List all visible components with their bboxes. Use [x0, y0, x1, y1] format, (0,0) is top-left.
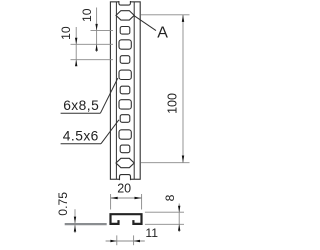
extension line 100 bottom — [141, 162, 190, 164]
svg-text:10: 10 — [59, 26, 73, 40]
extension line hole5 center — [71, 59, 114, 61]
top edge notch (cut hole) — [119, 1, 130, 5]
svg-text:8: 8 — [163, 194, 177, 201]
dimension line 11 — [106, 240, 145, 242]
extension line hole4 center — [71, 43, 114, 45]
rail inner bend line left — [115, 2, 117, 179]
svg-text:11: 11 — [145, 226, 158, 240]
small hole 4.5x6 — [120, 27, 130, 35]
rail front view outer outline — [110, 2, 140, 179]
sheet thickness band 0.75 — [65, 223, 107, 225]
svg-text:6x8,5: 6x8,5 — [63, 98, 99, 113]
svg-text:20: 20 — [117, 182, 131, 196]
dimension line 0.75 — [74, 209, 76, 233]
dimension 20 extension lines — [110, 194, 112, 210]
large hole — [119, 70, 131, 79]
dimension line 8 — [178, 204, 180, 233]
dimension 8 extension lines — [145, 211, 184, 213]
cross-section C profile — [111, 214, 142, 224]
dimension line 100 — [182, 15, 184, 163]
hexagon slot hole (bottom) — [116, 158, 134, 167]
svg-text:10: 10 — [80, 8, 94, 22]
svg-text:0.75: 0.75 — [56, 192, 70, 216]
large hole — [119, 130, 131, 139]
hexagon slot hole (top, item A) — [116, 11, 134, 20]
small hole — [120, 86, 130, 94]
svg-text:4.5x6: 4.5x6 — [63, 129, 99, 144]
extension line hole3 center — [91, 29, 114, 31]
small hole — [120, 56, 130, 64]
bottom edge notch (cut hole) — [120, 175, 131, 181]
small hole — [120, 145, 130, 153]
svg-text:A: A — [157, 25, 168, 42]
leader for A — [134, 16, 156, 31]
extension line 100 top — [141, 14, 190, 16]
dimension line 10 (lower) — [75, 27, 77, 66]
large hole 6x8.5 — [119, 40, 131, 49]
dimension line 20 — [111, 197, 142, 199]
dimension line 10 (upper) — [96, 8, 98, 53]
rail inner bend line right — [133, 2, 135, 179]
dimension 11 extension lines — [116, 235, 118, 245]
large hole — [119, 100, 131, 109]
svg-text:100: 100 — [166, 93, 180, 114]
small hole — [120, 115, 130, 123]
